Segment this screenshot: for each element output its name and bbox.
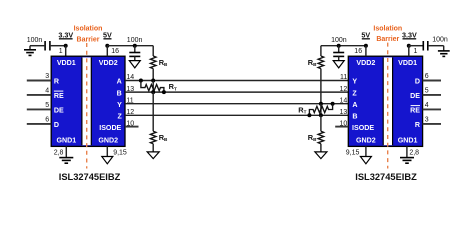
svg-text:B: B [352,113,357,121]
node A-RT junction (right) [331,102,335,106]
pin 3 stub (U2 R) [423,123,441,125]
svg-text:14: 14 [126,74,134,81]
capacitor C2 100n (left VDD2 bypass) [129,53,140,57]
svg-text:GND2: GND2 [356,137,376,145]
svg-text:11: 11 [126,97,133,104]
svg-text:D: D [415,78,420,86]
wire RB3 to line A (right) [320,69,322,104]
wire C1 to 3.3V node [51,45,66,47]
wire 5V rail elbow to RB1 [152,46,154,56]
node B-RB junction (left) [151,90,155,94]
svg-text:R: R [415,121,420,129]
node A-RT junction (left) [139,79,143,83]
ground (far left, GND1 side of U1) [24,46,36,56]
wire 5V rail (right) [321,45,366,47]
svg-text:VDD2: VDD2 [356,59,375,67]
svg-text:5: 5 [425,88,429,95]
svg-text:GND1: GND1 [398,137,418,145]
svg-text:9,15: 9,15 [113,150,127,157]
node A-RB junction (left) [151,79,155,83]
node 3.3V junction [64,44,68,48]
resistor RT2 (right termination) [298,104,332,116]
pin label RE with overline (U2) [410,106,420,115]
svg-text:12: 12 [340,86,348,93]
power 5V (right) [361,31,370,40]
ground (triangle, U2 GND2) [360,157,371,164]
svg-text:Barrier: Barrier [376,36,399,43]
svg-text:100n: 100n [331,37,347,44]
node 5V junction (right) [364,44,368,48]
power 3.3V (right) [402,31,417,40]
svg-text:DE: DE [410,92,420,100]
ground (triangle, RB2) [147,152,159,159]
wire ground to C1 [30,45,44,47]
svg-text:A: A [352,101,357,109]
wire 3.3V node to pin 1 U1 [65,46,67,57]
svg-text:6: 6 [45,117,49,124]
wire RB1 to line A [152,69,154,81]
isolation barrier dashed line (U1) [86,43,88,169]
svg-text:12: 12 [126,109,134,116]
svg-text:100n: 100n [432,37,448,44]
svg-text:11: 11 [340,74,347,81]
svg-text:GND1: GND1 [56,137,76,145]
resistor RB2 (left pull-down) [150,131,168,144]
pin label RE with overline (U1) [54,91,64,100]
ground (triangle, U1 GND2) [102,157,113,164]
pin 10 stub ISODE (U1) [125,126,138,128]
resistor RB1 (left pull-up) [150,56,168,69]
svg-text:ISL32745EIBZ: ISL32745EIBZ [59,172,121,182]
isolation barrier dashed line (U2) [387,43,389,169]
node 3.3V junction (right) [407,44,411,48]
capacitor C3 100n (right VDD2 bypass) [333,53,344,57]
wire RB2 to ground [152,144,154,152]
svg-text:16: 16 [354,48,362,55]
svg-text:2,8: 2,8 [409,150,419,157]
svg-text:1: 1 [59,48,63,55]
ground (triangle, RB4) [315,152,327,159]
svg-text:Isolation: Isolation [373,25,402,32]
wire A to B through RT2 vertical [320,104,322,116]
node C2 junction [133,44,137,48]
wire RB4 to ground [320,144,322,152]
power 3.3V (left) [58,31,73,40]
svg-text:A: A [117,78,122,86]
wire 3.3V node to pin 1 U2 [408,46,410,57]
resistor RB3 (right pull-up) [308,56,324,69]
svg-text:VDD1: VDD1 [57,59,76,67]
pin 4 stub (U2 RE) [423,108,441,110]
wire 5V rail elbow to RB3 [320,46,322,56]
wire 5V node to pin 16 U1 [106,46,108,57]
wire GND2 to ground (U1) [106,146,108,156]
svg-text:GND2: GND2 [98,137,118,145]
svg-text:ISL32745EIBZ: ISL32745EIBZ [355,172,417,182]
ground (U1 GND1) [59,158,73,164]
svg-text:RE: RE [54,92,64,100]
wire A to B through RT1 vertical [152,81,154,93]
op-amp U1 body (ISL32745EIBZ left, isolated halves) [51,56,125,146]
svg-text:100n: 100n [127,37,143,44]
svg-text:3: 3 [425,117,429,124]
wire 5V rail to C2 [134,46,136,52]
svg-text:9,15: 9,15 [346,150,360,157]
svg-text:13: 13 [340,109,348,116]
svg-text:Isolation: Isolation [74,25,103,32]
svg-text:Z: Z [117,113,122,121]
wire B to RB2 [152,92,154,131]
svg-text:3: 3 [45,73,49,80]
svg-text:100n: 100n [27,37,43,44]
svg-text:B: B [117,89,122,97]
wire C3 to ground [338,56,340,60]
svg-text:5: 5 [45,102,49,109]
node C3 junction [337,44,341,48]
pin 6 stub (U2 D) [423,80,441,82]
wire line B (U1 pin 13 to U2 pin 12) [125,91,348,93]
svg-text:4: 4 [425,102,429,109]
wire C2 to ground [134,56,136,60]
svg-text:VDD2: VDD2 [99,59,118,67]
resistor RT1 (left termination) [141,81,177,93]
wire B to RB4 [320,115,322,131]
label Isolation Barrier (U2) [373,25,402,43]
svg-text:Barrier: Barrier [77,36,100,43]
svg-text:10: 10 [340,120,348,127]
pin 3 stub (U1 R) [27,80,51,82]
wire GND1 to ground (U1) [65,146,67,157]
capacitor C4 100n (right VDD1 bypass) [423,41,428,51]
svg-text:Y: Y [352,78,357,86]
svg-text:16: 16 [111,48,119,55]
ground (far right, GND1 side of U2) [438,46,450,57]
svg-text:DE: DE [54,107,64,115]
wire line Y (U1 pin 11 to U2 pin 14) [125,103,348,105]
svg-text:1: 1 [414,48,418,55]
pin 5 stub (U1 DE) [27,108,51,110]
pin 5 stub (U2 DE) [423,94,441,96]
node B-RT junction (left) [162,90,166,94]
wire 3.3V node to C4 [409,45,423,47]
pin 6 stub (U1 D) [27,123,51,125]
ground (U2 GND1) [400,158,414,164]
wire 5V node to pin 16 U2 [365,46,367,57]
wire 5V rail (left) [107,45,153,47]
svg-text:Z: Z [352,89,357,97]
wire 5V rail to C3 [338,46,340,52]
svg-text:Y: Y [117,101,122,109]
wire line A (U1 pin 14 to U2 pin 11) [125,80,348,82]
svg-text:RE: RE [410,107,420,115]
node 5V junction (left) [105,44,109,48]
power 5V (left) [103,31,112,40]
svg-text:ISODE: ISODE [352,124,374,132]
label Isolation Barrier (U1) [74,25,103,43]
svg-text:14: 14 [340,97,348,104]
svg-text:ISODE: ISODE [99,124,121,132]
svg-text:2,8: 2,8 [54,150,64,157]
node B-RB junction (right) [319,113,323,117]
svg-text:VDD1: VDD1 [398,59,417,67]
wire GND2 to ground (U2) [365,146,367,156]
node B-RT junction (right) [307,113,311,117]
svg-text:13: 13 [126,86,134,93]
ground (triangle, C2) [129,61,140,68]
ground (triangle, C3) [333,61,344,68]
wire line Z (U1 pin 12 to U2 pin 13) [125,114,348,116]
node A-RB junction (right) [319,102,323,106]
svg-text:4: 4 [45,88,49,95]
wire GND1 to ground (U2) [406,146,408,157]
resistor RB4 (right pull-down) [308,131,324,144]
svg-text:10: 10 [126,120,134,127]
pin 10 stub ISODE (U2) [335,126,348,128]
wire C4 to ground [429,45,444,47]
capacitor C1 100n (left VDD1 bypass) [45,41,50,51]
svg-text:6: 6 [425,73,429,80]
svg-text:D: D [54,121,59,129]
pin 4 stub (U1 RE) [27,94,51,96]
svg-text:R: R [54,78,59,86]
op-amp U2 body (ISL32745EIBZ right, isolated halves) [348,56,422,146]
